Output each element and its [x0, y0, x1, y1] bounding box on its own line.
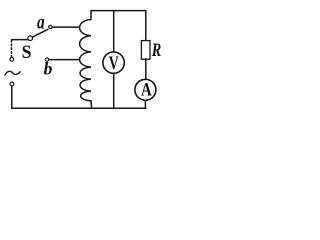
inductor coil L (5 turns, taps at a and b)	[80, 11, 92, 109]
contact b terminal	[45, 58, 48, 61]
AC source terminal (top)	[10, 57, 14, 61]
wire: resistor to ammeter	[145, 59, 147, 79]
wire: voltmeter branch top	[113, 11, 115, 52]
voltmeter V body	[103, 52, 124, 73]
svg-text:V: V	[109, 52, 119, 74]
wire: bottom rail	[12, 107, 146, 109]
ammeter A body	[135, 79, 156, 100]
contact a terminal	[49, 25, 52, 28]
AC source terminal (bottom)	[10, 82, 14, 86]
AC source symbol ~	[5, 71, 20, 75]
switch S blade	[33, 29, 48, 37]
svg-text:b: b	[44, 59, 53, 79]
switch S pivot	[28, 36, 33, 41]
wire: b to coil middle tap	[49, 59, 79, 61]
wire: bottom terminal to bottom rail	[11, 86, 13, 108]
svg-text:S: S	[22, 41, 32, 62]
wire: top rail	[91, 10, 146, 12]
wire: voltmeter branch bottom	[113, 74, 115, 109]
wire: switch pole horizontal	[12, 39, 28, 41]
wire: ammeter to bottom rail	[144, 101, 146, 109]
svg-text:A: A	[141, 79, 152, 100]
wire: right branch top	[145, 11, 147, 41]
svg-text:a: a	[37, 10, 45, 33]
wire: AC source top lead (dashed)	[11, 40, 13, 56]
wire: a to coil top tap	[52, 26, 79, 28]
svg-text:R: R	[151, 39, 161, 60]
resistor R body	[141, 41, 150, 60]
